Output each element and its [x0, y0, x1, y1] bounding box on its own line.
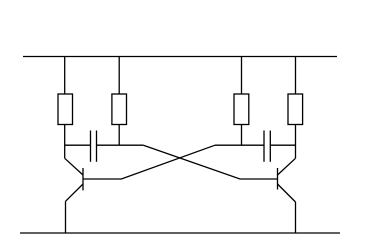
wire: R2 bottom to C1 right lead junction — [118, 125, 120, 146]
transistor Q2 — [278, 158, 296, 202]
wire: top rail to R1 — [64, 57, 66, 95]
resistor R4 — [288, 94, 303, 125]
wire: Q1 emitter to bottom rail — [65, 201, 67, 233]
wire: top rail to R3 — [241, 57, 243, 95]
resistor R1 — [58, 94, 73, 125]
wire: R3 bottom to C2 left lead junction — [241, 125, 243, 146]
wire: Q1 base to C2 (cross-coupling diagonal) — [83, 145, 215, 179]
wire: C1 to Q2 base (cross-coupling diagonal) — [143, 145, 277, 179]
wire: top rail to R4 — [295, 57, 297, 95]
wire: Q2 emitter to bottom rail — [295, 202, 297, 233]
wire: R4 bottom to Q2 collector node — [295, 125, 297, 159]
wire: top rail to R2 — [118, 57, 120, 95]
wire: R1 bottom to Q1 collector node — [64, 125, 66, 159]
resistor R3 — [234, 94, 249, 125]
bottom rail — [20, 232, 340, 234]
top supply rail — [23, 56, 337, 58]
transistor Q1 — [65, 158, 83, 201]
capacitor C2 — [215, 131, 296, 162]
capacitor C1 — [65, 131, 144, 162]
resistor R2 — [112, 94, 127, 125]
